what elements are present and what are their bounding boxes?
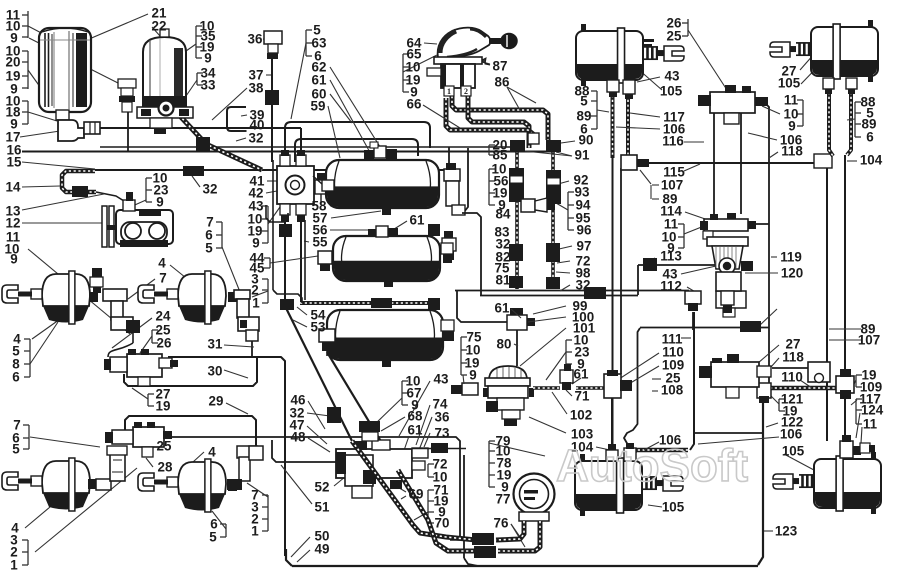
bracket 88-5-89-6 right (854, 102, 856, 137)
safety valve on tank 1 (364, 150, 374, 160)
svg-text:119: 119 (780, 250, 802, 265)
wire vertical hose 91 (515, 150, 519, 289)
wire pipe 31 run (168, 357, 285, 556)
wire tee drop to valve 20 (448, 147, 450, 171)
svg-text:118: 118 (781, 144, 803, 159)
svg-text:61: 61 (495, 301, 510, 316)
trailer valve 101 body (485, 378, 530, 386)
svg-text:12: 12 (6, 216, 21, 231)
bracket 117-124-11 (855, 399, 857, 424)
spring brake chamber 105 (bottom middle) (575, 461, 642, 510)
wire pipe from valve 25-26 down b (740, 113, 742, 214)
bracket 75-10-19-9 valve left (460, 337, 462, 375)
svg-text:110: 110 (781, 370, 803, 385)
bracket 10-18-9 (27, 101, 29, 124)
brake chamber 4 (rear-axle left) (42, 461, 90, 493)
reservoir 21 (39, 28, 91, 112)
brake chamber 4 (rear-axle right) (178, 462, 226, 494)
svg-text:5: 5 (12, 442, 20, 457)
brake chamber 4 (front right) (178, 274, 226, 306)
svg-text:AutoSoft: AutoSoft (556, 440, 748, 491)
svg-text:85: 85 (493, 148, 508, 163)
wire pipe 80 down to valve (516, 330, 518, 366)
wire pipe y163 across (628, 157, 814, 163)
wire pipe x612 long vertical (612, 155, 614, 452)
wire hose 86 a (452, 96, 548, 140)
svg-text:9: 9 (252, 236, 259, 251)
elbow on chamber 3 (96, 479, 111, 490)
tee fitting on line 104 (836, 376, 854, 393)
bracket 10-20-19-9 (27, 51, 29, 89)
elbow 7 on chamber 1 (103, 289, 127, 301)
wire pipe 37 riser from connector 36 (271, 54, 273, 162)
coupling-cross 114 (704, 219, 748, 231)
fitting cluster left of valve 101 (442, 238, 456, 251)
svg-text:43: 43 (665, 69, 680, 84)
wire hose 86 c (446, 98, 533, 140)
pressure regulator 84 (521, 199, 535, 212)
bracket 7-6-5 left (28, 425, 30, 449)
hose couplings 32 lower (509, 244, 523, 261)
air reservoir (tank 2) (333, 236, 440, 281)
wire pipe 17 from reservoir elbow (88, 127, 301, 129)
tank 3 drain (382, 360, 391, 367)
bracket 34-33 (196, 73, 198, 85)
svg-text:9: 9 (788, 119, 795, 134)
svg-text:105: 105 (660, 84, 683, 99)
bracket 25-26 left (151, 330, 153, 343)
bracket 79-10-78-19-9 (488, 441, 490, 487)
valve 27 block (711, 362, 759, 387)
bracket 5-63-6 (305, 30, 307, 56)
wire pipe elbow x638 (637, 265, 639, 295)
elbow at top of pipe 123 (757, 383, 771, 398)
svg-text:105: 105 (662, 500, 685, 515)
wire pipe x827 elbow join (818, 367, 827, 369)
fitting 112 lower (560, 370, 573, 383)
svg-text:1: 1 (10, 558, 18, 573)
svg-text:53: 53 (311, 320, 326, 335)
svg-text:6: 6 (866, 130, 873, 145)
tank 3 right fitting (441, 320, 454, 331)
svg-text:73: 73 (435, 426, 450, 441)
wire pipe to tee 99 (457, 291, 507, 322)
wire pipe 13 to compressor (96, 192, 124, 201)
bracket 72-10 (427, 464, 429, 477)
bracket 27-19 (147, 394, 149, 406)
svg-text:102: 102 (570, 408, 592, 423)
elbow on chamber 4r (237, 446, 257, 458)
wire pipe 115 second vertical (620, 168, 622, 374)
tank 1 left port fitting 58 (322, 180, 334, 191)
tank 2 right fitting (441, 243, 453, 254)
ports under top-left chamber (607, 80, 619, 92)
valve 25-26 top right (710, 92, 755, 113)
wire unloader drop pipe (127, 112, 129, 151)
wire hose 38 diagonal (166, 101, 262, 170)
coupling 113 (643, 258, 657, 271)
svg-text:71: 71 (575, 389, 590, 404)
svg-text:59: 59 (311, 99, 326, 114)
svg-text:52: 52 (315, 480, 330, 495)
wire pipe elbow to bottom run (464, 558, 478, 566)
bracket 19-109 right (855, 375, 857, 387)
elbow fitting 121 (685, 291, 701, 304)
svg-text:108: 108 (661, 383, 684, 398)
bracket 10-56-19-9 mid (488, 169, 490, 205)
bracket 11-10-9 right (802, 100, 804, 126)
bracket 88-5-89-6 mid (596, 91, 598, 129)
tank 3 left elbow (319, 329, 335, 342)
couplings 70 on hoses (472, 533, 494, 545)
pipes below protection valve (272, 160, 274, 290)
bracket 65-10-19-9 (402, 54, 404, 92)
bracket 4-5-8-6 left (29, 339, 31, 377)
svg-text:123: 123 (775, 524, 797, 539)
bracket 3-2-1 bottom-left (27, 540, 29, 565)
fitting 56-61 on tank 2 (376, 226, 388, 237)
svg-text:70: 70 (435, 516, 450, 531)
trailer valve 101 dome (489, 366, 527, 380)
air reservoir 59 (tank 1) (326, 160, 439, 208)
coupling 32 on pipe y290 (584, 287, 606, 299)
wire pipe x612 tee join (611, 398, 613, 452)
svg-text:61: 61 (408, 423, 423, 438)
svg-text:61: 61 (312, 73, 327, 88)
wire pipes below protection valve (284, 205, 286, 303)
coupling 32 on hose 14 (72, 186, 88, 197)
wire pipe from valve 25-26 right loop (757, 103, 769, 384)
svg-text:84: 84 (496, 207, 511, 222)
wire bottom long pipe 49 (292, 565, 758, 567)
svg-text:28: 28 (158, 460, 173, 475)
spring brake chamber (top left, type 24) (576, 31, 643, 80)
coupling heads 90 on hoses (510, 140, 525, 152)
wire hose 116 braided (611, 95, 615, 158)
svg-text:14: 14 (6, 180, 21, 195)
wire riser x481 (462, 213, 481, 295)
wire bottom pipe left elbow 50 (286, 549, 292, 566)
wire pipe from valve 25-26 down (713, 113, 715, 218)
svg-text:30: 30 (208, 364, 223, 379)
wire pipe 118 horizontal (772, 367, 818, 369)
valve 25 lower (133, 427, 164, 447)
svg-text:26: 26 (157, 336, 172, 351)
svg-text:90: 90 (579, 133, 594, 148)
svg-text:25: 25 (157, 439, 172, 454)
drain valve on chamber 1 (90, 277, 103, 287)
pressure gauge 77 (514, 474, 555, 515)
bracket 10-67-9 (401, 381, 403, 405)
hose 86c end fitting (528, 133, 539, 144)
svg-text:112: 112 (660, 279, 682, 294)
svg-text:97: 97 (577, 239, 592, 254)
svg-text:9: 9 (10, 252, 17, 267)
svg-text:9: 9 (204, 51, 211, 66)
svg-text:6: 6 (12, 370, 19, 385)
svg-text:15: 15 (7, 155, 22, 170)
wire pipe 15 hose line (95, 169, 447, 171)
hose 76 a (496, 521, 524, 540)
port fitting chamber 1 (89, 292, 98, 302)
svg-text:77: 77 (496, 492, 511, 507)
fitting cluster above chamber 105 right (840, 441, 853, 458)
tank 2 left elbow 44-45 (318, 251, 332, 264)
spring brake chamber 105 (bottom right) (814, 459, 881, 508)
reservoir 21 drain elbow 18 (56, 110, 69, 120)
coupling on hose 38 (159, 101, 174, 116)
svg-text:116: 116 (662, 134, 684, 149)
coupling 32 right (740, 321, 761, 332)
svg-text:22: 22 (152, 19, 167, 34)
hand brake valve 64 (438, 28, 491, 58)
svg-text:31: 31 (208, 337, 223, 352)
ports above chamber 105 mid (606, 450, 618, 461)
bracket 10-23-9 bottom valve (565, 340, 567, 364)
fitting 61 on tank 2 top right (428, 224, 440, 236)
tee fitting 99-100 (507, 315, 527, 330)
hose 76 b (498, 521, 540, 551)
svg-text:32: 32 (249, 131, 264, 146)
compressor 12 (116, 210, 173, 244)
wire hose 106 to chamber (632, 450, 688, 455)
tee fitting 25-108 (604, 374, 621, 398)
wire pipe from lower valve to right (161, 437, 460, 538)
wire hose 110 horizontal (770, 386, 838, 391)
svg-text:105: 105 (782, 444, 805, 459)
coupling 32 on diagonal (327, 407, 341, 423)
leader 89-107 to pipe (829, 328, 861, 330)
svg-text:29: 29 (209, 394, 224, 409)
four-circuit protection valve 41-42 (277, 166, 314, 204)
svg-text:4: 4 (208, 445, 216, 460)
wire pipe loop 30 (124, 357, 257, 386)
svg-text:87: 87 (493, 59, 508, 74)
air dryer 22 (143, 37, 186, 108)
bracket 7-6-5 mid (221, 222, 223, 248)
svg-text:24: 24 (156, 309, 171, 324)
svg-text:107: 107 (858, 333, 880, 348)
wire pipe x827 vertical (826, 168, 828, 441)
tank 1 drain 57 (382, 208, 391, 215)
wire pipe 112 drop (692, 312, 694, 330)
bracket 3-2-1 mid (267, 279, 269, 303)
svg-text:11: 11 (784, 93, 799, 108)
arrow 87 (480, 58, 490, 65)
svg-text:124: 124 (861, 403, 884, 418)
svg-text:2: 2 (464, 87, 468, 96)
wire hose 117 braided (626, 95, 630, 157)
brake chamber 4 (front left) (42, 274, 90, 306)
stubs on top-left chamber (644, 39, 654, 42)
wire loop pipe x468 (459, 148, 468, 212)
svg-text:107: 107 (661, 178, 683, 193)
bracket 11-10-9 trailer (683, 224, 685, 248)
bracket 10-35-19-9 dryer (195, 26, 197, 58)
wire pipe to tee 25 (576, 386, 630, 390)
bracket 20-85 (488, 145, 490, 155)
wire pipe loop right of tee (624, 328, 640, 445)
svg-text:36: 36 (248, 32, 263, 47)
svg-text:20: 20 (6, 55, 21, 70)
elbow fitting 115 under chamber (621, 155, 637, 170)
svg-text:1: 1 (252, 296, 260, 311)
wire pipe loop 62 over tank 1 (295, 139, 418, 162)
trailer valve 101 lower section (497, 398, 524, 410)
wire vertical hose 92 (551, 150, 555, 289)
wire pipe y224 from trailer valve (748, 223, 769, 225)
svg-text:49: 49 (315, 542, 330, 557)
bracket 26-25 top-right (687, 19, 689, 36)
svg-text:61: 61 (410, 213, 425, 228)
trailer valve 101 left port (462, 383, 478, 395)
svg-text:105: 105 (778, 76, 801, 91)
wire pipe 16 (horizontal feed line) (22, 151, 553, 153)
bracket 71-19-9-70 (427, 490, 429, 523)
wire pipe y290 long (455, 290, 689, 292)
bracket 7-3-2-1 (267, 495, 269, 531)
valve 20-85 (444, 169, 460, 181)
hose 69 b (398, 470, 478, 551)
port fitting chamber 3 (88, 479, 97, 489)
svg-text:38: 38 (249, 81, 264, 96)
svg-text:32: 32 (576, 278, 591, 293)
hose 69 a (352, 441, 476, 540)
bracket 11-10-9 top-left (27, 11, 29, 38)
connector 36 (264, 31, 282, 44)
svg-text:43: 43 (434, 372, 449, 387)
fitting 61 on tank 3 right (428, 298, 440, 310)
fitting at head of pipe 53 (280, 299, 294, 310)
wire pipe 54 hose horizontal (300, 301, 436, 305)
coupling 32 on riser (265, 90, 279, 105)
pipe 24 curve (108, 343, 133, 357)
bracket 93-96 (567, 192, 569, 230)
svg-text:5: 5 (580, 94, 588, 109)
svg-text:61: 61 (574, 367, 589, 382)
wire pipe 51 run (272, 440, 336, 462)
bracket 44-45 (269, 258, 271, 268)
hose 91 couplings (509, 168, 524, 202)
wire pipe 32 run under trailer valve (640, 327, 769, 329)
hose lower couplings 98 (509, 276, 523, 288)
valve 24-25-26 (127, 354, 162, 377)
svg-text:96: 96 (577, 223, 592, 238)
port fitting chamber 4r (228, 481, 237, 491)
wire pipe riser to protection valve (300, 128, 302, 160)
svg-text:1: 1 (251, 524, 259, 539)
svg-text:19: 19 (156, 399, 171, 414)
svg-text:76: 76 (494, 516, 509, 531)
svg-text:80: 80 (497, 337, 512, 352)
svg-text:11: 11 (863, 417, 878, 432)
svg-text:104: 104 (860, 153, 883, 168)
svg-text:91: 91 (575, 148, 590, 163)
bracket 10-23-9 compressor (145, 178, 147, 202)
svg-text:120: 120 (781, 266, 803, 281)
tank 2 drain (384, 281, 393, 287)
svg-text:55: 55 (313, 235, 328, 250)
wire pipe y433 link (694, 432, 763, 434)
svg-text:48: 48 (291, 430, 306, 445)
two-section brake valve 52 (336, 449, 412, 478)
wire diagonal pipe 46-48 bundle (327, 352, 400, 473)
svg-text:118: 118 (782, 350, 804, 365)
wire hose 14 loop (62, 171, 96, 192)
svg-text:7: 7 (159, 271, 166, 286)
svg-text:32: 32 (203, 182, 218, 197)
ports under top-right chamber (823, 78, 834, 89)
spring brake chamber (top right) (811, 27, 878, 76)
svg-text:113: 113 (660, 249, 682, 264)
valve body near 121 (716, 291, 746, 308)
coupling on diagonal lower (363, 470, 376, 484)
svg-text:9: 9 (469, 368, 476, 383)
wire hose 86 b (468, 96, 529, 148)
coupling 32 on pipe 15 (183, 166, 204, 176)
wire pipe 55 down (300, 205, 302, 303)
svg-text:25: 25 (667, 29, 682, 44)
svg-text:4: 4 (158, 256, 166, 271)
tee fitting loop29 (249, 446, 263, 460)
leader lines (28, 26, 70, 48)
wire elbow 107-89 top (814, 154, 832, 168)
unloader valve 35 (118, 79, 136, 88)
dryer base muffler 33-34 (150, 118, 172, 128)
svg-text:51: 51 (315, 500, 330, 515)
wire pipe loop 29 (125, 416, 256, 446)
wire pipe riser from chamber 2 elbow (251, 341, 253, 357)
svg-text:106: 106 (780, 427, 802, 442)
wire pipe x845 vertical (line 104) (844, 155, 846, 441)
svg-text:33: 33 (201, 78, 216, 93)
wire pipe loop 60 over tank 1 (285, 122, 430, 162)
svg-text:5: 5 (205, 241, 213, 256)
port fitting chamber 2 (228, 292, 237, 302)
wire hose x829 from port (829, 92, 833, 156)
wire pipe riser at gauge area (463, 455, 465, 558)
svg-text:68: 68 (408, 409, 423, 424)
fitting 41-42 on hose (196, 137, 210, 151)
bracket 43-10-19-9 (267, 206, 269, 243)
svg-text:66: 66 (407, 97, 422, 112)
wire diagonal pipe 53 (284, 304, 352, 441)
svg-text:36: 36 (435, 410, 450, 425)
wire pipe upper feed (100, 146, 516, 148)
elbow fitting at 118-110 junction (808, 362, 830, 382)
coupling below valve (279, 224, 292, 237)
svg-text:5: 5 (209, 530, 217, 545)
wire pipe 123 vertical (758, 392, 763, 565)
wire thin pipe to gauge coupling a (450, 539, 476, 541)
svg-text:9: 9 (156, 195, 163, 210)
elbow 1-2-3 on chamber 2 (234, 290, 250, 299)
wire pipe 39-40 loop at left (227, 107, 246, 131)
wire thin pipe to gauge coupling b (450, 550, 478, 552)
bracket 121-19 (778, 399, 780, 411)
wire hose at chamber top right (847, 92, 851, 155)
svg-text:81: 81 (496, 273, 511, 288)
svg-text:1: 1 (447, 87, 451, 96)
wire pipe x694 vertical (690, 312, 694, 450)
coupling 54 (371, 298, 392, 308)
air reservoir (tank 3) (327, 310, 443, 360)
wire pipe 102 hose (533, 386, 560, 390)
wire pipe y296 (480, 295, 638, 297)
svg-text:86: 86 (495, 75, 510, 90)
bracket 6-5 ch4 (225, 524, 227, 537)
svg-text:69: 69 (409, 487, 424, 502)
